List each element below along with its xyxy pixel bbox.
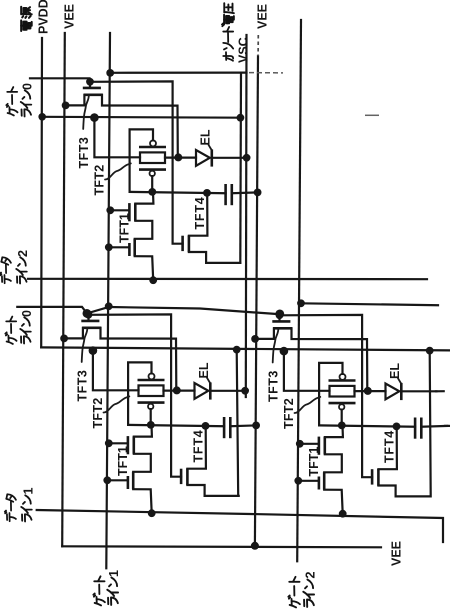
junction dot cell1 EL cathode on VSC: [243, 154, 251, 162]
wire cell3 EL cathode extension: [436, 390, 444, 392]
svg-text:PVDD: PVDD: [37, 0, 51, 34]
wire hanging vertical cell1 (W4 down to TFT4 source): [239, 73, 242, 263]
junction dot cell1 capacitor on VEE2: [254, 189, 262, 197]
junction dot cell2 capacitor on VEE2: [252, 422, 260, 430]
junction dot cell2 EL cathode on VSC: [241, 387, 249, 395]
wire hanging vertical cell3: [430, 351, 431, 497]
junction dot row2 gate lead on cell2 gate: [83, 309, 92, 318]
junction dot W4 on gate line 1: [106, 69, 114, 77]
junction dot W6 row2 on cell2 hanging vertical: [233, 346, 241, 354]
svg-text:VSC: VSC: [237, 37, 251, 63]
wire faint continuation of W4: [249, 72, 283, 74]
junction dot H_a2 on gate line 2: [297, 299, 305, 307]
label cathode voltage katakana+kanji (KASODO DENATSU): [223, 52, 233, 61]
wire row1 horizontal from gate line 1 to VSC (node W4): [110, 71, 247, 73]
wire VEE vertical line (second): [255, 56, 258, 546]
wire data line 2 horizontal: [28, 278, 427, 281]
junction dot W6 row1 right end: [237, 114, 245, 122]
junction dot row2 gate lead on gate line 1: [105, 302, 113, 310]
junction dot VEE second line on VEE bottom: [251, 542, 259, 550]
wire hanging vertical cell2: [237, 350, 239, 496]
label gate line 0 row2: [5, 332, 16, 344]
wire gate line 2 vertical: [297, 20, 301, 561]
wire node W6 row2 horizontal (PVDD corner to right edge): [41, 347, 450, 350]
label power supply kanji (DENGEN): [21, 20, 32, 31]
svg-text:2: 2: [304, 572, 318, 579]
svg-text:1: 1: [107, 570, 121, 577]
junction dot W6 row2 on cell3 hanging vertical: [426, 347, 434, 355]
wire PVDD supply vertical line: [40, 38, 43, 347]
wire VEE second line faint top dashes: [257, 35, 259, 56]
wire gate line 0 row2 label lead + sag polyline: [17, 307, 280, 314]
wire data line 1 horizontal with end hook: [37, 510, 443, 542]
svg-text:0: 0: [20, 310, 34, 317]
wire node W6 row1 horizontal (PVDD to hanging vertical): [42, 116, 240, 119]
label gate line 1 bottom: [93, 593, 105, 605]
wire cathode voltage VSC vertical line: [245, 35, 248, 397]
wire gate line 1 vertical: [106, 33, 110, 568]
wire cell3 capacitor right extension to right edge: [445, 425, 450, 427]
label gate line 0 row1 (katakana GE-TO RAIN 0): [6, 104, 17, 116]
label data line 2 (DE-TA RAIN 2): [0, 273, 11, 284]
svg-text:VEE: VEE: [390, 541, 404, 566]
svg-text:1: 1: [22, 488, 36, 495]
svg-text:VEE: VEE: [256, 4, 270, 29]
junction dot row2 gate lead on cell3 gate: [275, 310, 284, 319]
label gate line 2 bottom: [288, 595, 300, 607]
wire VEE supply vertical line (left): [62, 33, 65, 546]
wire VEE bottom horizontal: [62, 546, 381, 547]
wire gate line 0 label lead (row1): [30, 78, 90, 82]
wire faint fragment right area: [365, 114, 379, 116]
svg-text:0: 0: [21, 83, 35, 90]
wire row2 horizontal from gate line 2 to right (H_a2): [301, 303, 438, 305]
junction dot W6 row1 on PVDD: [38, 113, 46, 121]
svg-text:2: 2: [16, 250, 30, 257]
label data line 1: [5, 511, 16, 522]
svg-text:VEE: VEE: [63, 4, 77, 29]
